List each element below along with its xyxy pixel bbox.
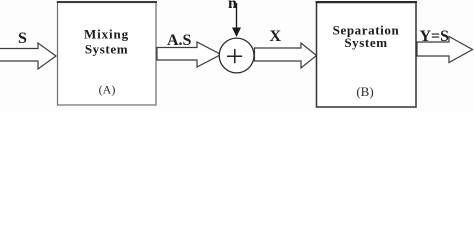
svg-text:S: S [18,30,27,47]
svg-text:(B): (B) [356,84,373,99]
svg-text:System: System [344,35,387,50]
summing junction adder [219,38,254,73]
svg-text:A.S: A.S [167,32,192,49]
svg-text:System: System [85,42,128,57]
separation system block B [317,3,417,108]
wire A.S block arrow [157,42,221,67]
svg-text:n: n [228,0,237,12]
wire X block arrow [255,43,317,68]
svg-text:(A): (A) [99,83,116,97]
svg-text:X: X [270,28,282,45]
plus sign [227,49,242,63]
svg-text:Y=S: Y=S [420,28,450,45]
mixing system block A [58,3,157,106]
svg-text:Mixing: Mixing [84,27,129,42]
wire n input [236,3,238,29]
wire Y=S output block arrow [417,37,473,63]
wire S input block arrow [0,43,56,69]
